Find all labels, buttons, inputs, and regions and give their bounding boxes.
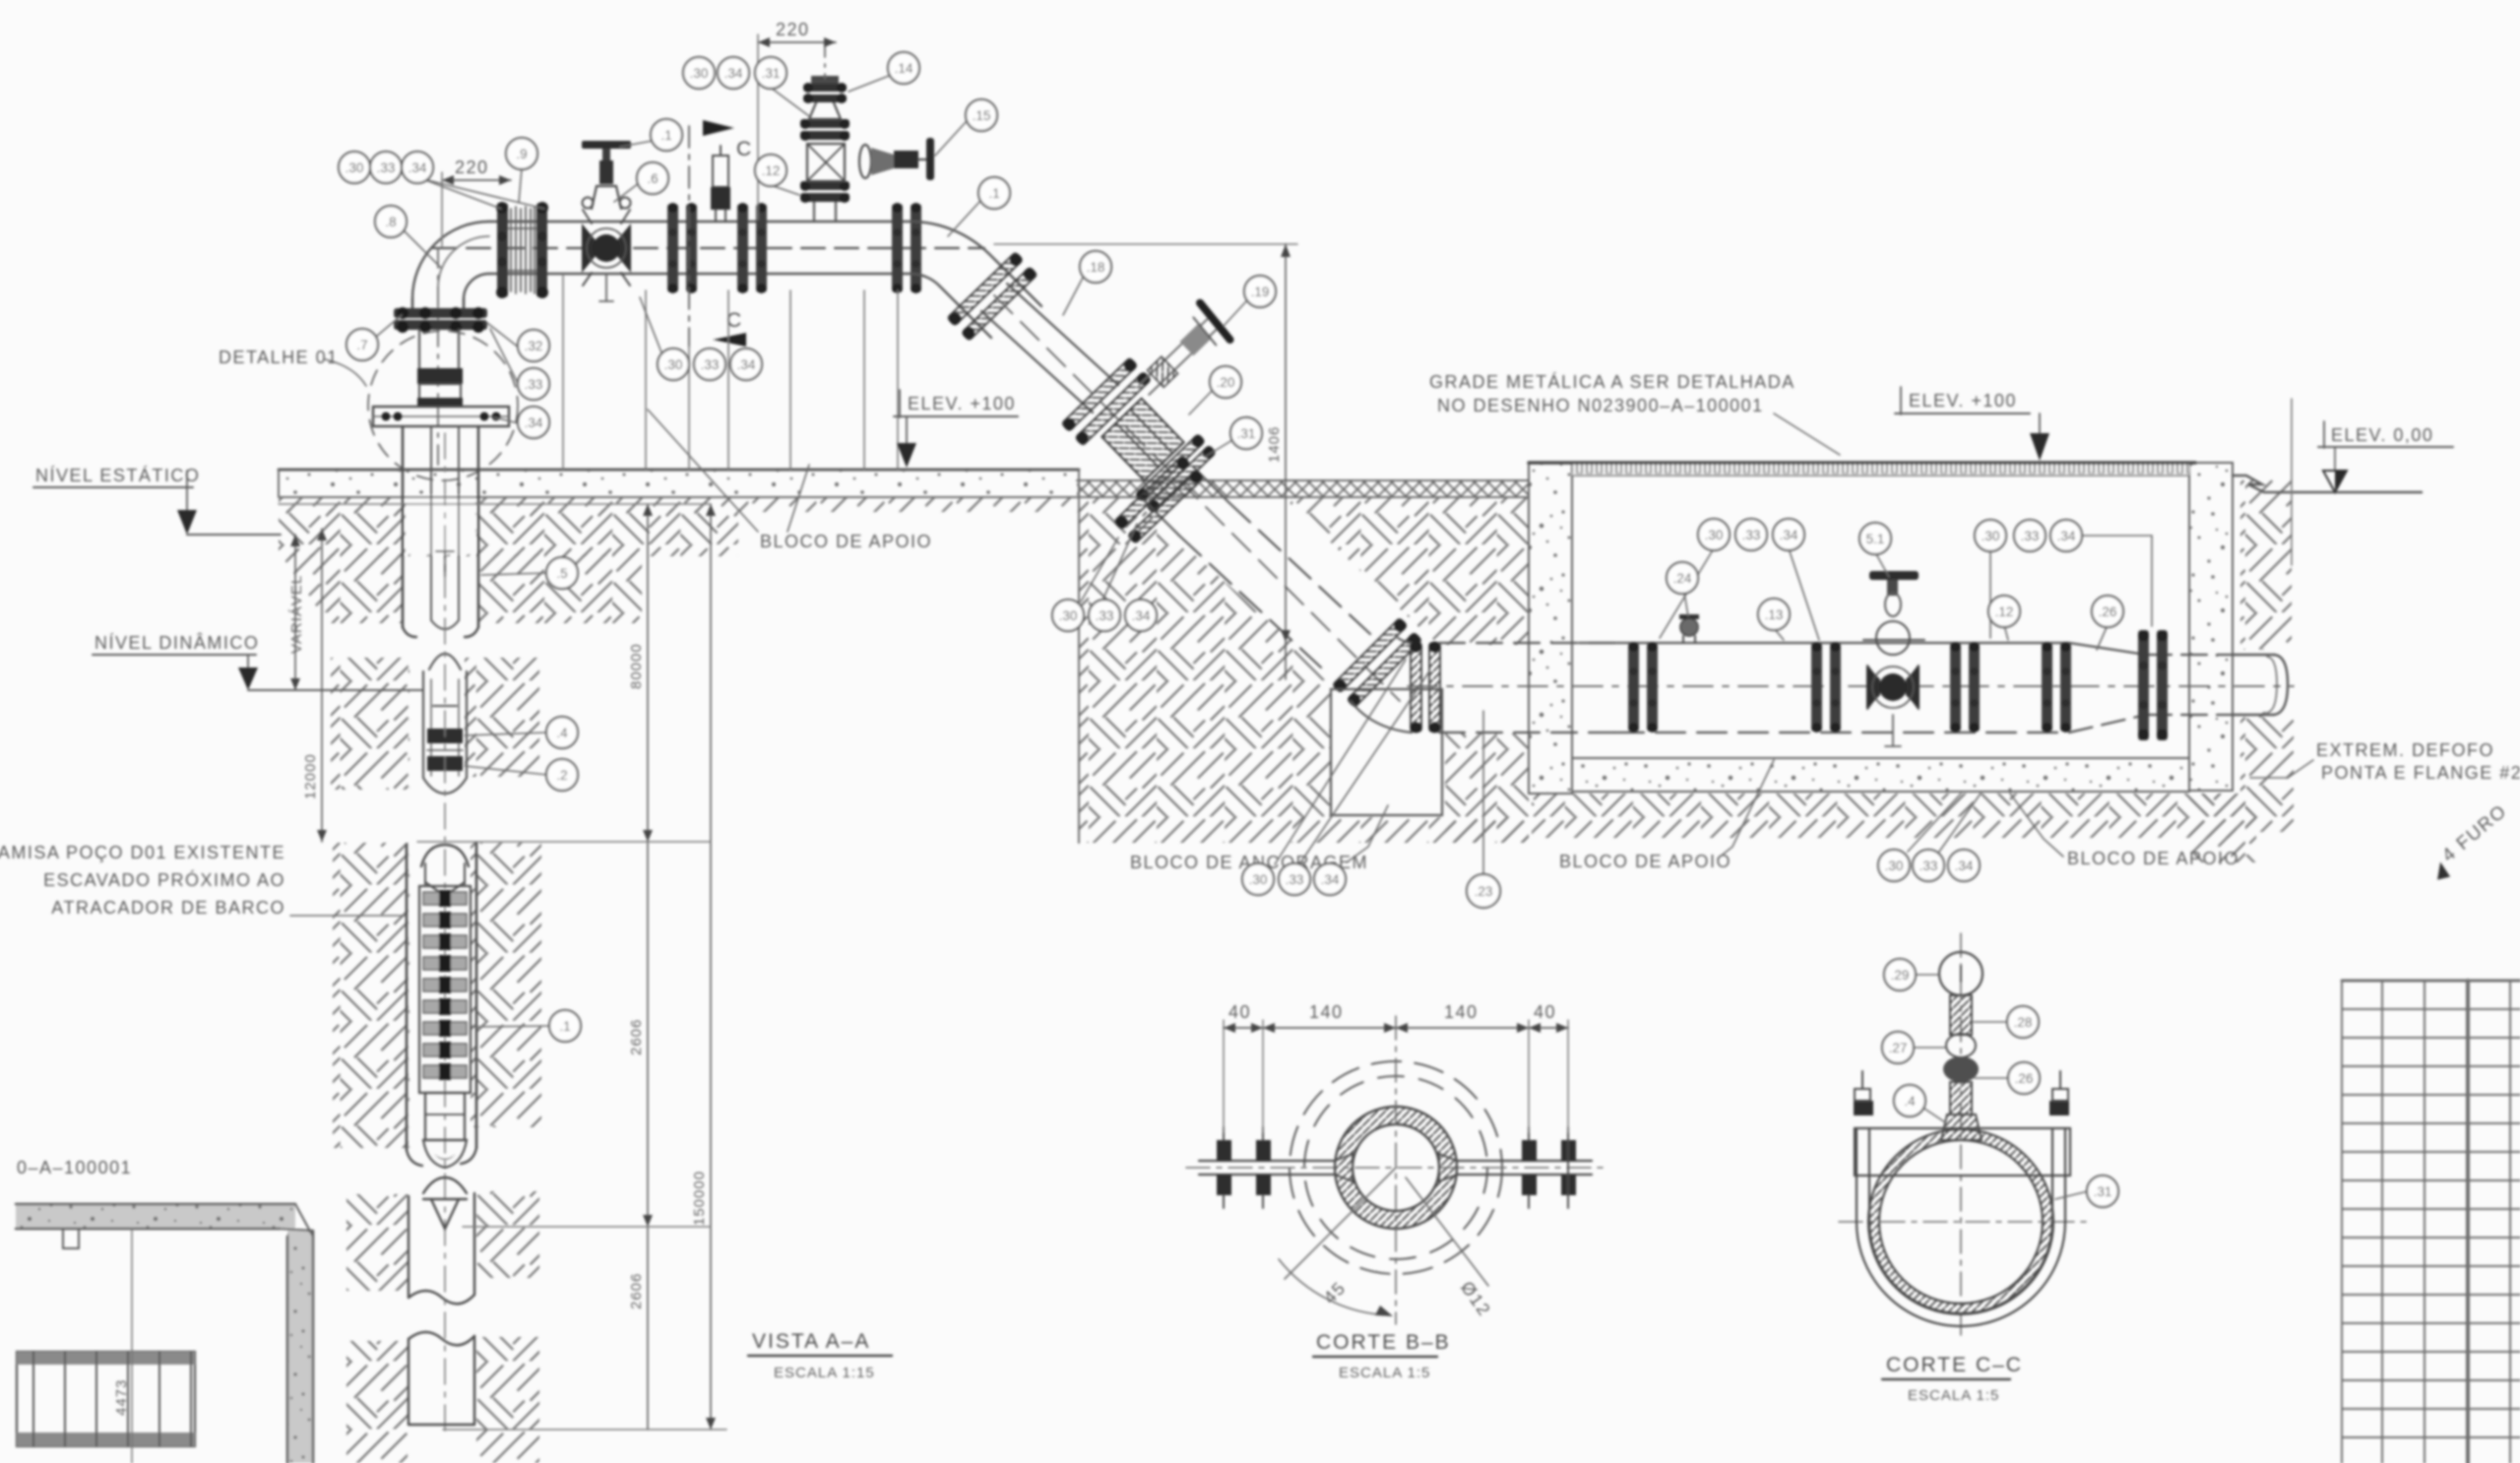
pipe beyond reducer through right wall bbox=[2146, 654, 2233, 656]
upper reducer body bbox=[809, 100, 841, 119]
callout balloon .32 bbox=[518, 330, 549, 361]
soil hatch right of pump bbox=[471, 843, 541, 1127]
svg-text:4473: 4473 bbox=[113, 1379, 130, 1416]
callout balloon .9 bbox=[506, 138, 537, 169]
casing below plate bbox=[402, 426, 405, 627]
svg-text:.33: .33 bbox=[701, 357, 720, 372]
callout balloon .34 bbox=[1948, 850, 1980, 881]
soil hatch left of casing segment bbox=[346, 1194, 408, 1291]
pipe dashed centerline bbox=[433, 247, 984, 249]
callout balloon .20 bbox=[1210, 366, 1241, 398]
nivel dinamico marker bbox=[93, 633, 423, 690]
soil hatch left of well (upper) bbox=[279, 497, 1079, 512]
svg-text:.12: .12 bbox=[1995, 604, 2014, 619]
svg-text:.26: .26 bbox=[2015, 1071, 2034, 1086]
svg-text:.1: .1 bbox=[988, 186, 999, 201]
svg-text:.28: .28 bbox=[2014, 1015, 2033, 1030]
lower casing segment with breaks bbox=[409, 1177, 474, 1425]
lower elbow flange pair (45deg) bbox=[1332, 617, 1422, 708]
callout balloon .1 bbox=[651, 119, 682, 151]
bottom-left wall horizontal band (plan) bbox=[16, 1204, 295, 1229]
callout balloon .18 bbox=[1080, 251, 1111, 283]
svg-text:.27: .27 bbox=[1889, 1041, 1908, 1055]
callout balloon .6 bbox=[637, 162, 668, 194]
svg-text:.33: .33 bbox=[525, 377, 543, 392]
support projection lines under pipe bbox=[563, 276, 898, 470]
svg-text:.34: .34 bbox=[2057, 529, 2076, 543]
flange pair F1 bbox=[667, 203, 697, 293]
pipe through left wall (dashed) bbox=[1439, 642, 1614, 644]
svg-text:.34: .34 bbox=[1780, 528, 1798, 542]
dense crosshatch ground band between slab and trench bbox=[1077, 480, 1529, 497]
riser segment 2 with bells bbox=[429, 654, 461, 669]
svg-text:2606: 2606 bbox=[628, 1273, 645, 1309]
sleeve body bbox=[1102, 399, 1183, 480]
dim variavel bbox=[288, 535, 305, 690]
soil hatch under trench floor bbox=[1532, 794, 2236, 838]
callout balloon .34 bbox=[402, 152, 433, 183]
callout balloon .28 bbox=[2007, 1006, 2039, 1038]
anchor block bbox=[1331, 689, 1442, 815]
pipe top edge bbox=[489, 221, 911, 223]
callout balloon .29 bbox=[1884, 959, 1916, 990]
svg-text:220: 220 bbox=[776, 20, 810, 39]
pump lower body bbox=[425, 1093, 465, 1140]
soil hatch right of diagonal pipe up to trench wall bbox=[1287, 497, 1529, 645]
svg-text:.34: .34 bbox=[409, 160, 427, 175]
trench right wall (concrete) bbox=[2189, 463, 2233, 791]
svg-text:.33: .33 bbox=[1920, 859, 1938, 873]
outer well casing around pump bbox=[406, 845, 409, 1150]
couplings on segment 2 (items .4/.2) bbox=[427, 729, 463, 743]
callout balloon .30 bbox=[1698, 519, 1730, 550]
flange pair F2 bbox=[737, 203, 767, 293]
gate valve with handwheel bbox=[582, 141, 631, 301]
svg-text:.7: .7 bbox=[356, 338, 367, 352]
callout balloon .4 bbox=[546, 717, 578, 748]
soil hatch right of well (upper) bbox=[478, 554, 642, 623]
elbow to riser (90deg) bbox=[412, 222, 489, 308]
svg-text:VISTA A–A: VISTA A–A bbox=[752, 1330, 870, 1353]
long dim 150000 bbox=[691, 504, 716, 1430]
callout balloon .19 bbox=[1244, 276, 1276, 307]
svg-text:.30: .30 bbox=[1982, 529, 2000, 543]
detail circle DETALHE 01 bbox=[368, 331, 518, 480]
elev 0,00 marker bbox=[2292, 399, 2453, 565]
short pipe below flange bbox=[418, 330, 420, 368]
svg-text:.33: .33 bbox=[377, 160, 396, 175]
soil hatch left of diagonal pipe bbox=[1079, 497, 1331, 843]
svg-text:ELEV. +100: ELEV. +100 bbox=[908, 394, 1016, 413]
pipe solid in trench bbox=[1579, 642, 2069, 644]
svg-text:.30: .30 bbox=[1249, 872, 1268, 887]
svg-text:.33: .33 bbox=[1286, 872, 1304, 887]
svg-text:.31: .31 bbox=[1237, 426, 1256, 441]
callout balloon .33 bbox=[1913, 850, 1944, 881]
callout balloon .30 bbox=[1878, 850, 1910, 881]
svg-text:.4: .4 bbox=[1904, 1094, 1916, 1109]
callout balloon .1 bbox=[549, 1010, 581, 1042]
elbow down-right bbox=[911, 222, 1041, 306]
svg-text:ELEV. +100: ELEV. +100 bbox=[1909, 391, 2017, 411]
reducer cone bbox=[2069, 643, 2146, 655]
soil hatch right of casing segment bbox=[476, 1191, 539, 1278]
U-bolt bbox=[1857, 1222, 2065, 1326]
section arrow C bottom bbox=[713, 333, 746, 347]
lower elbow body bbox=[1398, 638, 1412, 643]
soil hatch between anchor block and trench wall bbox=[1445, 733, 1529, 842]
callout balloon .24 bbox=[1667, 562, 1698, 594]
callout balloon .7 bbox=[346, 329, 378, 360]
callout balloon .12 bbox=[1988, 596, 2020, 627]
svg-text:150000: 150000 bbox=[691, 1171, 708, 1226]
svg-text:140: 140 bbox=[1444, 1002, 1479, 1022]
callout balloon .12 bbox=[755, 155, 787, 186]
top flange stack bbox=[803, 84, 847, 92]
diagonal coupling assembly bbox=[1061, 357, 1220, 517]
svg-text:.34: .34 bbox=[724, 66, 743, 81]
callout balloon .33 bbox=[694, 349, 725, 380]
callout balloon .30 bbox=[1052, 600, 1084, 631]
svg-text:.4: .4 bbox=[556, 726, 568, 740]
svg-text:80000: 80000 bbox=[628, 643, 645, 689]
section line C-C bbox=[688, 126, 690, 347]
trench floor slab (concrete) bbox=[1572, 758, 2189, 792]
svg-text:.30: .30 bbox=[690, 66, 709, 81]
soil hatch right of well (mid) bbox=[465, 658, 539, 777]
elev +100 marker right bbox=[1895, 387, 2049, 461]
callout balloon .26 bbox=[2092, 596, 2123, 627]
elbow vertical flange pair bbox=[1411, 642, 1440, 733]
callout balloon .33 bbox=[1735, 519, 1767, 550]
soil hatch left of well (mid) bbox=[331, 658, 409, 790]
small branch pipe with break (item .19) bbox=[1128, 303, 1233, 407]
callout balloon .34 bbox=[730, 349, 762, 380]
callout balloon .34 bbox=[2050, 520, 2082, 551]
svg-text:.14: .14 bbox=[895, 61, 913, 76]
svg-text:.1: .1 bbox=[559, 1019, 570, 1034]
callout balloon .34 bbox=[1125, 600, 1157, 631]
callout balloon .5 bbox=[546, 557, 578, 589]
svg-text:DETALHE 01: DETALHE 01 bbox=[219, 348, 339, 367]
svg-text:BLOCO DE APOIO: BLOCO DE APOIO bbox=[760, 532, 932, 551]
callout balloon .13 bbox=[1758, 599, 1790, 630]
soil hatch left of bottom casing bbox=[346, 1341, 408, 1463]
pipe wall hatched bbox=[1868, 1129, 2053, 1314]
svg-text:5.1: 5.1 bbox=[1866, 532, 1885, 546]
callout balloon .30 bbox=[658, 349, 689, 380]
callout balloon .34 bbox=[1314, 863, 1346, 895]
svg-text:EXTREM. DEFOFO: EXTREM. DEFOFO bbox=[2316, 740, 2494, 760]
svg-text:220: 220 bbox=[455, 158, 489, 177]
expansion joint (bellows) with flanges bbox=[496, 202, 548, 298]
riser flange with bolts bbox=[394, 308, 487, 318]
trench pipe centerline bbox=[1408, 685, 2294, 687]
svg-text:VARIÁVEL: VARIÁVEL bbox=[288, 575, 305, 654]
svg-text:NO DESENHO N023900–A–100001: NO DESENHO N023900–A–100001 bbox=[1437, 396, 1764, 415]
svg-text:BLOCO DE APOIO: BLOCO DE APOIO bbox=[1559, 852, 1732, 871]
callout balloon .34 bbox=[518, 407, 549, 438]
wall column stub bbox=[63, 1229, 79, 1248]
callout balloon .4 bbox=[1894, 1085, 1925, 1116]
trench left wall (concrete) bbox=[1529, 463, 1572, 794]
dim 1406 vertical right of diagonal bbox=[994, 244, 1297, 679]
callout balloon .33 bbox=[370, 152, 402, 183]
svg-text:40: 40 bbox=[1534, 1002, 1556, 1022]
soil hatch left of pump bbox=[333, 843, 409, 1148]
svg-text:.19: .19 bbox=[1251, 285, 1270, 299]
callout balloon .31 bbox=[1230, 417, 1262, 449]
tie rod through pipe bbox=[1199, 1160, 1335, 1162]
svg-text:12000: 12000 bbox=[302, 753, 319, 799]
svg-text:.33: .33 bbox=[2021, 529, 2040, 543]
callout balloon .23 bbox=[1467, 874, 1500, 908]
svg-text:.30: .30 bbox=[1705, 528, 1724, 542]
svg-text:.6: .6 bbox=[647, 171, 658, 186]
svg-text:GRADE METÁLICA A SER DETALHADA: GRADE METÁLICA A SER DETALHADA bbox=[1429, 372, 1795, 392]
dim extension lines bbox=[1224, 1020, 1568, 1132]
callout balloon .30 bbox=[683, 57, 715, 89]
svg-text:.33: .33 bbox=[1742, 528, 1761, 542]
svg-text:ESCALA 1:15: ESCALA 1:15 bbox=[774, 1365, 875, 1381]
dim 220 (top, over ventosa) bbox=[758, 20, 836, 220]
svg-text:.34: .34 bbox=[525, 415, 543, 430]
svg-text:.34: .34 bbox=[737, 357, 756, 372]
section arrow C top bbox=[703, 120, 734, 136]
soil hatch right of bottom casing bbox=[476, 1337, 539, 1463]
small valve stack on pipe top bbox=[1939, 952, 1983, 1140]
instrument / small tap on pipe bbox=[711, 146, 730, 222]
svg-text:.33: .33 bbox=[1096, 608, 1114, 623]
diagonal centerline bbox=[994, 295, 1400, 701]
middle flange pair bbox=[800, 119, 850, 128]
diagonal flange pair at ground crossing bbox=[1113, 455, 1204, 543]
svg-text:CAMISA POÇO D01 EXISTENTE: CAMISA POÇO D01 EXISTENTE bbox=[0, 843, 285, 862]
callout balloon .33 bbox=[518, 368, 549, 400]
callout balloon .34 bbox=[1773, 519, 1804, 550]
svg-text:.34: .34 bbox=[1955, 859, 1974, 873]
pump top bell bbox=[421, 845, 469, 866]
dim 12000 bbox=[302, 529, 327, 842]
svg-text:.2: .2 bbox=[556, 768, 567, 783]
riser centerline bbox=[437, 248, 439, 473]
soil hatch under right wall bbox=[2189, 794, 2256, 862]
air valve item .24 on pipe bbox=[1679, 614, 1699, 643]
outer insulation dashed circles bbox=[1290, 1061, 1502, 1274]
metal grating over trench bbox=[1572, 463, 2189, 476]
svg-text:2606: 2606 bbox=[628, 1019, 645, 1055]
centerlines bbox=[1960, 933, 1962, 1335]
callout balloon .1 bbox=[978, 177, 1010, 209]
svg-text:.15: .15 bbox=[973, 108, 991, 123]
svg-text:.30: .30 bbox=[1885, 859, 1904, 873]
svg-text:140: 140 bbox=[1309, 1002, 1344, 1022]
pump body outline bbox=[419, 886, 471, 1093]
callout balloon .34 bbox=[718, 57, 749, 89]
bottom-left wall vertical band (plan) bbox=[287, 1229, 313, 1463]
trench gate valve 5.1 bbox=[1863, 571, 1924, 746]
svg-text:.9: .9 bbox=[516, 147, 527, 161]
svg-text:.5: .5 bbox=[556, 566, 567, 581]
centerline bbox=[824, 43, 826, 79]
callout balloon .30 bbox=[1975, 520, 2006, 551]
pump ribs (bowl stages) bbox=[423, 890, 467, 1080]
svg-text:.31: .31 bbox=[2094, 1184, 2112, 1199]
soil hatch under anchor block bbox=[1258, 817, 1529, 843]
extension lines bbox=[279, 504, 726, 1430]
45 deg annotation bbox=[1285, 1168, 1396, 1279]
callout balloon .33 bbox=[1089, 600, 1120, 631]
callout balloon .33 bbox=[1279, 863, 1310, 895]
svg-text:.8: .8 bbox=[385, 215, 396, 229]
callout balloon .15 bbox=[966, 99, 997, 131]
callout balloon .2 bbox=[546, 759, 578, 791]
a furo rotated note bbox=[2424, 800, 2516, 884]
svg-text:CORTE B–B: CORTE B–B bbox=[1316, 1331, 1451, 1354]
dim line 40/140/140/40 bbox=[1224, 1027, 1568, 1029]
callout balloon .31 bbox=[2087, 1176, 2118, 1207]
svg-text:0–A–100001: 0–A–100001 bbox=[17, 1158, 132, 1177]
crossbar bbox=[1855, 1128, 2070, 1176]
riser pipes bbox=[411, 298, 413, 311]
svg-text:.26: .26 bbox=[2099, 604, 2117, 619]
svg-text:NÍVEL ESTÁTICO: NÍVEL ESTÁTICO bbox=[35, 466, 200, 485]
centerlines bbox=[1395, 1016, 1397, 1324]
pipe outside right wall with end bbox=[2233, 654, 2274, 656]
svg-text:.32: .32 bbox=[525, 339, 543, 353]
svg-text:.30: .30 bbox=[664, 357, 683, 372]
svg-text:.34: .34 bbox=[1132, 608, 1151, 623]
concrete slab left (stippled) bbox=[279, 470, 1079, 497]
wellhead plate bbox=[373, 407, 509, 426]
pipe bottom edge bbox=[489, 273, 911, 275]
diagonal pipe lower part (dashed underground) bbox=[1193, 467, 1228, 502]
svg-text:40: 40 bbox=[1228, 1002, 1251, 1022]
rod bolts bbox=[1217, 1140, 1576, 1195]
svg-text:.34: .34 bbox=[1321, 872, 1340, 887]
body end rings bbox=[1136, 434, 1205, 501]
diameter 12 annotation bbox=[1406, 1177, 1488, 1286]
svg-text:NÍVEL DINÂMICO: NÍVEL DINÂMICO bbox=[94, 633, 259, 653]
trench flange pairs bbox=[1628, 642, 1658, 732]
U-bolt nuts bbox=[1854, 1071, 2069, 1115]
svg-text:.24: .24 bbox=[1673, 571, 1692, 586]
nivel estatico marker bbox=[33, 466, 281, 535]
callout balloon .14 bbox=[888, 52, 919, 84]
svg-text:.30: .30 bbox=[346, 160, 364, 175]
ground line right of trench with step bbox=[2233, 476, 2422, 492]
coupling block bbox=[417, 368, 463, 384]
dim 220 left (over riser) bbox=[442, 158, 511, 246]
soil hatch right of trench wall upper bbox=[2240, 479, 2292, 650]
svg-text:C: C bbox=[736, 138, 753, 160]
pipe wall hatched annulus bbox=[1335, 1107, 1457, 1229]
svg-text:.30: .30 bbox=[1059, 608, 1078, 623]
svg-text:CORTE C–C: CORTE C–C bbox=[1886, 1354, 2023, 1376]
well centerline bbox=[444, 433, 446, 1437]
svg-text:.20: .20 bbox=[1217, 375, 1235, 390]
valve body with side regulator bbox=[807, 144, 845, 181]
long dim 80000 bbox=[628, 504, 653, 1430]
inner riser segment 1 bbox=[430, 426, 432, 620]
callout balloon .31 bbox=[755, 57, 787, 89]
flange pair F3 bbox=[892, 203, 921, 293]
svg-text:1406: 1406 bbox=[1266, 426, 1283, 463]
svg-text:.1: .1 bbox=[661, 128, 671, 143]
svg-text:BLOCO DE APOIO: BLOCO DE APOIO bbox=[2067, 849, 2239, 868]
callout balloon 5.1 bbox=[1859, 523, 1891, 554]
callout balloon .33 bbox=[2014, 520, 2046, 551]
callout balloon .27 bbox=[1882, 1032, 1914, 1063]
tee legs bbox=[813, 201, 815, 222]
svg-text:.13: .13 bbox=[1765, 607, 1784, 622]
elev +100 marker left bbox=[894, 390, 1018, 468]
svg-text:.31: .31 bbox=[762, 66, 781, 81]
svg-text:PONTA E FLANGE #20: PONTA E FLANGE #20 bbox=[2321, 763, 2520, 783]
svg-text:ESCAVADO PRÓXIMO AO: ESCAVADO PRÓXIMO AO bbox=[43, 869, 285, 890]
svg-text:ATRACADOR DE BARCO: ATRACADOR DE BARCO bbox=[51, 898, 285, 918]
callout balloon .26 bbox=[2008, 1062, 2040, 1094]
soil hatch right of trench wall lower bbox=[2240, 712, 2294, 832]
svg-text:.29: .29 bbox=[1891, 968, 1910, 983]
callout balloon .30 bbox=[1242, 863, 1274, 895]
svg-text:ESCALA 1:5: ESCALA 1:5 bbox=[1908, 1387, 1999, 1404]
svg-text:ESCALA 1:5: ESCALA 1:5 bbox=[1339, 1365, 1430, 1381]
suction bell bbox=[423, 1140, 467, 1168]
callout balloon .8 bbox=[375, 206, 407, 237]
svg-text:.12: .12 bbox=[762, 163, 781, 178]
svg-text:.23: .23 bbox=[1475, 884, 1493, 899]
diagonal pipe edges bbox=[1007, 284, 1118, 385]
svg-text:ELEV. 0,00: ELEV. 0,00 bbox=[2331, 425, 2433, 445]
callout balloon .30 bbox=[339, 152, 370, 183]
svg-text:.18: .18 bbox=[1087, 260, 1105, 275]
diagonal flange pair near elbow bbox=[947, 251, 1039, 341]
lower flange pair bbox=[800, 181, 850, 190]
